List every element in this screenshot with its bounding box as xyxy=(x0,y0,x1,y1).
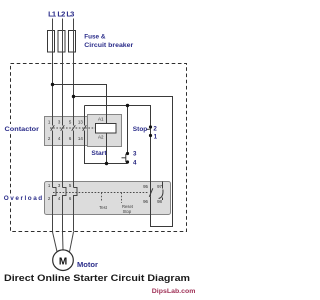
svg-text:2: 2 xyxy=(153,125,157,132)
svg-text:Test: Test xyxy=(99,205,108,210)
svg-text:Motor: Motor xyxy=(77,260,98,269)
svg-text:4: 4 xyxy=(133,159,137,166)
svg-text:Direct Online Starter Circuit: Direct Online Starter Circuit Diagram xyxy=(4,273,190,283)
svg-text:L3: L3 xyxy=(66,10,74,19)
svg-text:95: 95 xyxy=(143,184,148,189)
svg-text:96: 96 xyxy=(143,199,148,204)
svg-text:98: 98 xyxy=(157,199,162,204)
svg-text:DipsLab.com: DipsLab.com xyxy=(152,288,196,295)
svg-text:L1: L1 xyxy=(48,10,57,19)
svg-text:Stop: Stop xyxy=(123,209,132,214)
svg-text:Circuit breaker: Circuit breaker xyxy=(84,42,133,49)
svg-text:3: 3 xyxy=(133,151,137,158)
svg-text:A2: A2 xyxy=(98,135,104,140)
svg-text:97: 97 xyxy=(157,184,162,189)
svg-text:M: M xyxy=(59,256,67,267)
svg-text:Start: Start xyxy=(91,150,107,157)
svg-text:13: 13 xyxy=(78,120,83,125)
svg-text:1: 1 xyxy=(154,134,158,141)
svg-text:L2: L2 xyxy=(57,10,65,19)
svg-text:Contactor: Contactor xyxy=(5,126,40,133)
svg-text:Stop: Stop xyxy=(133,126,148,133)
svg-text:14: 14 xyxy=(78,136,83,141)
svg-text:A1: A1 xyxy=(98,117,104,122)
svg-text:Fuse &: Fuse & xyxy=(84,33,106,40)
